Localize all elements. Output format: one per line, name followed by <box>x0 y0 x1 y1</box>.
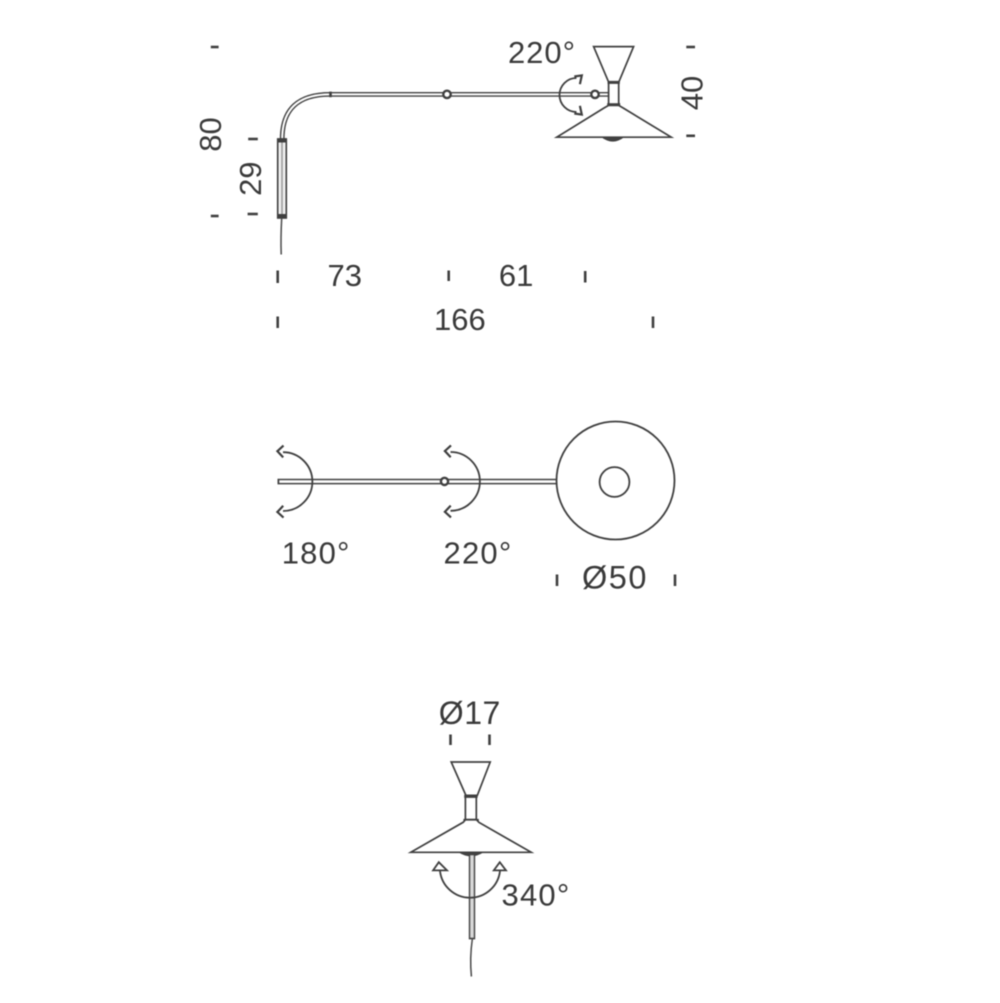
dimension D50 left tick <box>556 575 559 587</box>
dimension 40 top tick <box>686 46 695 49</box>
svg-text:80: 80 <box>193 117 228 151</box>
dimension D50 right tick <box>674 575 677 587</box>
label 340 deg <box>502 878 571 913</box>
dimension D17 right tick <box>488 735 491 746</box>
shade inner circle (top view) <box>600 467 630 497</box>
dimension D17 label <box>439 695 501 731</box>
dimension 29 label <box>233 161 268 195</box>
dimension D17 left tick <box>449 735 452 746</box>
svg-text:73: 73 <box>327 258 361 293</box>
svg-text:61: 61 <box>499 258 533 293</box>
svg-text:Ø50: Ø50 <box>582 559 648 595</box>
dimension row 1 : tick left <box>276 271 279 284</box>
svg-text:29: 29 <box>233 161 268 195</box>
dimension 80 bottom tick <box>211 215 219 218</box>
shade bottom diffuser bump (side view) <box>602 137 625 141</box>
dimension row 1 : tick right <box>584 271 587 283</box>
svg-text:220°: 220° <box>444 535 513 570</box>
dimension 29 bottom tick <box>248 213 258 216</box>
dimension row 2 : tick left <box>276 317 279 329</box>
pendant rod (front view) <box>469 854 475 939</box>
tube joint tick at elbow end <box>329 92 332 98</box>
power cord below bracket <box>280 218 283 255</box>
svg-text:180°: 180° <box>282 535 351 570</box>
head swivel joint circle <box>591 91 598 98</box>
top view mid swivel circle <box>441 478 448 485</box>
shade bottom cone (front view) <box>411 820 531 853</box>
dimension 73 label <box>327 258 361 293</box>
dimension 61 label <box>499 258 533 293</box>
dimension D50 label <box>582 559 648 595</box>
label 180 deg <box>282 535 351 570</box>
label 220 deg (head) <box>508 35 576 70</box>
cord below rod <box>471 939 473 976</box>
dimension 29 top tick <box>248 138 258 141</box>
shade bottom cone (side view) <box>557 105 671 137</box>
svg-text:220°: 220° <box>508 35 576 70</box>
svg-text:40: 40 <box>675 76 710 110</box>
rotation arc 340 <box>433 862 506 898</box>
rotation arc 180 (wall end) <box>277 446 312 518</box>
top view arm (double line) <box>278 479 558 485</box>
svg-text:166: 166 <box>434 302 486 337</box>
svg-text:Ø17: Ø17 <box>439 695 501 731</box>
shade bottom diffuser bump (front view) <box>459 852 484 856</box>
arm tube (vertical riser, elbow and horizontal arm) <box>282 94 609 141</box>
shade top cone (front view) <box>451 762 490 795</box>
dimension 80 top tick <box>211 46 219 49</box>
wall mount bracket <box>277 138 286 218</box>
dimension 166 label <box>434 302 486 337</box>
arm mid swivel circle <box>443 91 450 98</box>
dimension row 1 : tick middle <box>447 271 450 282</box>
svg-text:340°: 340° <box>502 878 571 913</box>
dimension 40 label <box>675 76 710 110</box>
rotation arc 220 (mid joint) <box>445 445 480 517</box>
label 220 deg (mid) <box>444 535 513 570</box>
shade outer circle (top view) <box>557 422 675 540</box>
shade neck (front view) <box>463 795 478 820</box>
dimension 80 label <box>193 117 228 151</box>
shade top cone (side view) <box>594 47 634 82</box>
dimension 40 bottom tick <box>686 135 695 138</box>
shade neck (side view) <box>607 82 620 106</box>
dimension row 2 : tick right <box>652 317 655 329</box>
head rotation arc 220 <box>560 75 582 114</box>
